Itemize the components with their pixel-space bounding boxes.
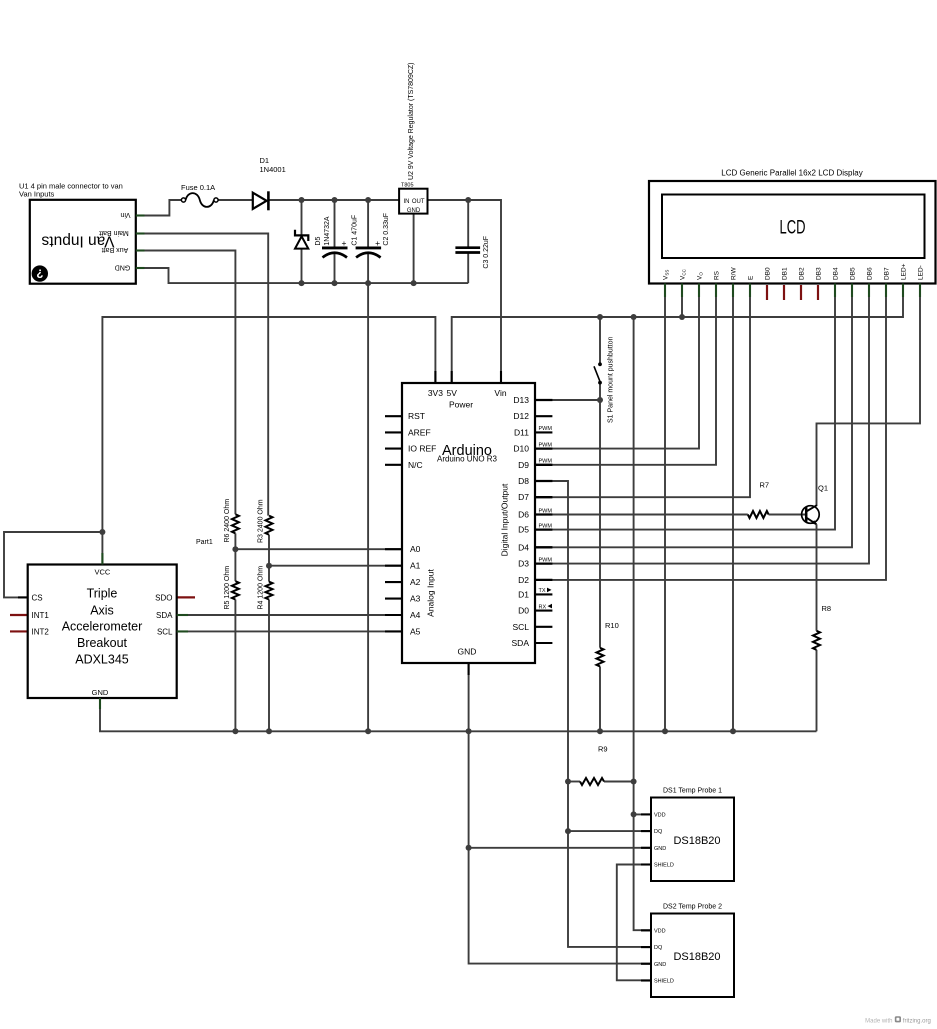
svg-text:DB4: DB4 bbox=[833, 267, 840, 280]
svg-text:Triple: Triple bbox=[87, 586, 118, 600]
svg-text:D0: D0 bbox=[518, 606, 529, 616]
svg-text:LED+: LED+ bbox=[901, 263, 908, 280]
svg-text:Axis: Axis bbox=[90, 603, 114, 617]
svg-text:Made with: Made with bbox=[865, 1019, 892, 1025]
svg-text:VCC: VCC bbox=[680, 268, 687, 280]
svg-text:Aux Batt: Aux Batt bbox=[102, 246, 129, 253]
svg-text:PWM: PWM bbox=[539, 426, 553, 432]
svg-text:Analog Input: Analog Input bbox=[426, 568, 436, 616]
svg-text:VCC: VCC bbox=[94, 568, 110, 577]
svg-text:A3: A3 bbox=[410, 594, 421, 604]
svg-text:D11: D11 bbox=[514, 427, 529, 437]
svg-text:Van Inputs: Van Inputs bbox=[19, 190, 55, 199]
svg-text:DB2: DB2 bbox=[799, 267, 806, 280]
svg-text:D10: D10 bbox=[513, 444, 529, 454]
svg-text:IO REF: IO REF bbox=[408, 444, 436, 454]
svg-text:PWM: PWM bbox=[539, 459, 553, 465]
svg-text:S1 Panel mount pushbutton: S1 Panel mount pushbutton bbox=[608, 336, 615, 423]
svg-text:DS2 Temp Probe 2: DS2 Temp Probe 2 bbox=[663, 904, 722, 911]
svg-text:LED-: LED- bbox=[918, 265, 925, 280]
svg-text:A2: A2 bbox=[410, 577, 421, 587]
svg-text:GND: GND bbox=[407, 208, 421, 214]
svg-text:DQ: DQ bbox=[654, 945, 663, 951]
svg-text:Fuse 0.1A: Fuse 0.1A bbox=[181, 183, 215, 192]
svg-text:U2 9V Voltage Regulator (TS780: U2 9V Voltage Regulator (TS7809CZ) bbox=[408, 62, 415, 180]
svg-text:DB5: DB5 bbox=[850, 267, 857, 280]
svg-text:D3: D3 bbox=[518, 559, 529, 569]
svg-text:DS18B20: DS18B20 bbox=[673, 951, 720, 963]
svg-text:SDA: SDA bbox=[512, 638, 530, 648]
svg-text:DS1 Temp Probe 1: DS1 Temp Probe 1 bbox=[663, 788, 722, 795]
svg-text:Arduino UNO R3: Arduino UNO R3 bbox=[437, 455, 498, 464]
svg-text:C1 470uF: C1 470uF bbox=[352, 215, 359, 246]
svg-text:Part1: Part1 bbox=[196, 539, 213, 546]
svg-text:D1: D1 bbox=[518, 589, 529, 599]
svg-text:DB3: DB3 bbox=[816, 267, 823, 280]
svg-text:R10: R10 bbox=[605, 621, 619, 630]
svg-text:INT1: INT1 bbox=[32, 611, 50, 620]
svg-text:GND: GND bbox=[92, 688, 109, 697]
svg-text:D13: D13 bbox=[513, 395, 529, 405]
svg-text:D5: D5 bbox=[315, 237, 322, 246]
svg-text:DB1: DB1 bbox=[782, 267, 789, 280]
svg-text:LCD Generic Parallel 16x2 LCD: LCD Generic Parallel 16x2 LCD Display bbox=[721, 169, 862, 178]
svg-text:GND: GND bbox=[654, 962, 666, 968]
svg-text:ADXL345: ADXL345 bbox=[75, 653, 129, 667]
svg-text:DB7: DB7 bbox=[884, 267, 891, 280]
svg-text:PWM: PWM bbox=[539, 442, 553, 448]
svg-text:R4 1200 Ohm: R4 1200 Ohm bbox=[257, 566, 264, 610]
svg-text:DB0: DB0 bbox=[765, 267, 772, 280]
svg-text:GND: GND bbox=[115, 264, 131, 271]
svg-text:VDD: VDD bbox=[654, 812, 666, 818]
svg-text:D9: D9 bbox=[518, 460, 529, 470]
svg-text:PWM: PWM bbox=[539, 523, 553, 529]
svg-text:RST: RST bbox=[408, 411, 425, 421]
svg-text:GND: GND bbox=[458, 647, 477, 657]
svg-text:R/W: R/W bbox=[731, 267, 738, 281]
svg-text:3V3: 3V3 bbox=[428, 388, 443, 398]
svg-text:+: + bbox=[375, 238, 380, 248]
svg-text:A5: A5 bbox=[410, 626, 421, 636]
svg-text:DB6: DB6 bbox=[867, 267, 874, 280]
svg-text:D2: D2 bbox=[518, 575, 529, 585]
svg-text:AREF: AREF bbox=[408, 427, 431, 437]
svg-text:SCL: SCL bbox=[512, 622, 529, 632]
svg-text:Accelerometer: Accelerometer bbox=[62, 619, 143, 633]
svg-text:SCL: SCL bbox=[157, 627, 173, 636]
svg-text:Vin: Vin bbox=[120, 211, 130, 218]
svg-text:1N4732A: 1N4732A bbox=[324, 216, 331, 246]
svg-text:D8: D8 bbox=[518, 476, 529, 486]
svg-text:Main Batt: Main Batt bbox=[99, 229, 129, 236]
svg-text:+: + bbox=[342, 238, 347, 248]
svg-text:VSS: VSS bbox=[663, 270, 670, 280]
svg-text:LCD: LCD bbox=[780, 217, 806, 239]
svg-text:PWM: PWM bbox=[539, 508, 553, 514]
svg-text:INT2: INT2 bbox=[32, 627, 50, 636]
svg-text:SHIELD: SHIELD bbox=[654, 979, 674, 985]
svg-text:A0: A0 bbox=[410, 544, 421, 554]
svg-text:Digital Input/Output: Digital Input/Output bbox=[499, 483, 509, 556]
svg-text:VDD: VDD bbox=[654, 928, 666, 934]
svg-text:GND: GND bbox=[654, 846, 666, 852]
svg-text:D7: D7 bbox=[518, 492, 529, 502]
svg-text:R6 2400 Ohm: R6 2400 Ohm bbox=[224, 499, 231, 543]
svg-text:R9: R9 bbox=[598, 745, 608, 754]
svg-text:E: E bbox=[748, 275, 755, 280]
svg-text:R3 2400 Ohm: R3 2400 Ohm bbox=[257, 499, 264, 543]
svg-text:OUT: OUT bbox=[412, 199, 425, 205]
svg-text:N/C: N/C bbox=[408, 460, 423, 470]
svg-text:Power: Power bbox=[449, 400, 473, 410]
svg-text:C3 0.22uF: C3 0.22uF bbox=[483, 236, 490, 269]
svg-text:VO: VO bbox=[697, 272, 704, 280]
svg-text:D12: D12 bbox=[513, 411, 529, 421]
svg-text:Q1: Q1 bbox=[818, 484, 828, 493]
svg-text:A1: A1 bbox=[410, 561, 421, 571]
svg-text:RS: RS bbox=[714, 270, 721, 280]
svg-text:SDA: SDA bbox=[156, 611, 173, 620]
svg-text:R5 1200 Ohm: R5 1200 Ohm bbox=[224, 566, 231, 610]
svg-text:A4: A4 bbox=[410, 610, 421, 620]
svg-text:RX: RX bbox=[539, 604, 547, 610]
svg-text:D1: D1 bbox=[260, 156, 270, 165]
svg-text:SDO: SDO bbox=[155, 593, 172, 602]
svg-text:?: ? bbox=[36, 267, 43, 279]
svg-text:5V: 5V bbox=[446, 388, 457, 398]
svg-text:T805: T805 bbox=[401, 182, 414, 188]
svg-text:IN: IN bbox=[404, 199, 410, 205]
svg-text:DS18B20: DS18B20 bbox=[673, 835, 720, 847]
svg-text:R7: R7 bbox=[760, 481, 770, 490]
svg-text:fritzing.org: fritzing.org bbox=[903, 1019, 931, 1025]
svg-text:SHIELD: SHIELD bbox=[654, 863, 674, 869]
svg-text:CS: CS bbox=[32, 593, 43, 602]
svg-text:1N4001: 1N4001 bbox=[260, 165, 286, 174]
svg-text:TX: TX bbox=[539, 588, 546, 594]
svg-text:Breakout: Breakout bbox=[77, 636, 128, 650]
svg-text:Vin: Vin bbox=[494, 388, 506, 398]
svg-text:D4: D4 bbox=[518, 542, 529, 552]
svg-text:PWM: PWM bbox=[539, 557, 553, 563]
svg-text:D5: D5 bbox=[518, 525, 529, 535]
svg-text:C2 0.33uF: C2 0.33uF bbox=[383, 213, 390, 246]
svg-text:DQ: DQ bbox=[654, 829, 663, 835]
svg-text:R8: R8 bbox=[822, 604, 832, 613]
svg-text:D6: D6 bbox=[518, 510, 529, 520]
